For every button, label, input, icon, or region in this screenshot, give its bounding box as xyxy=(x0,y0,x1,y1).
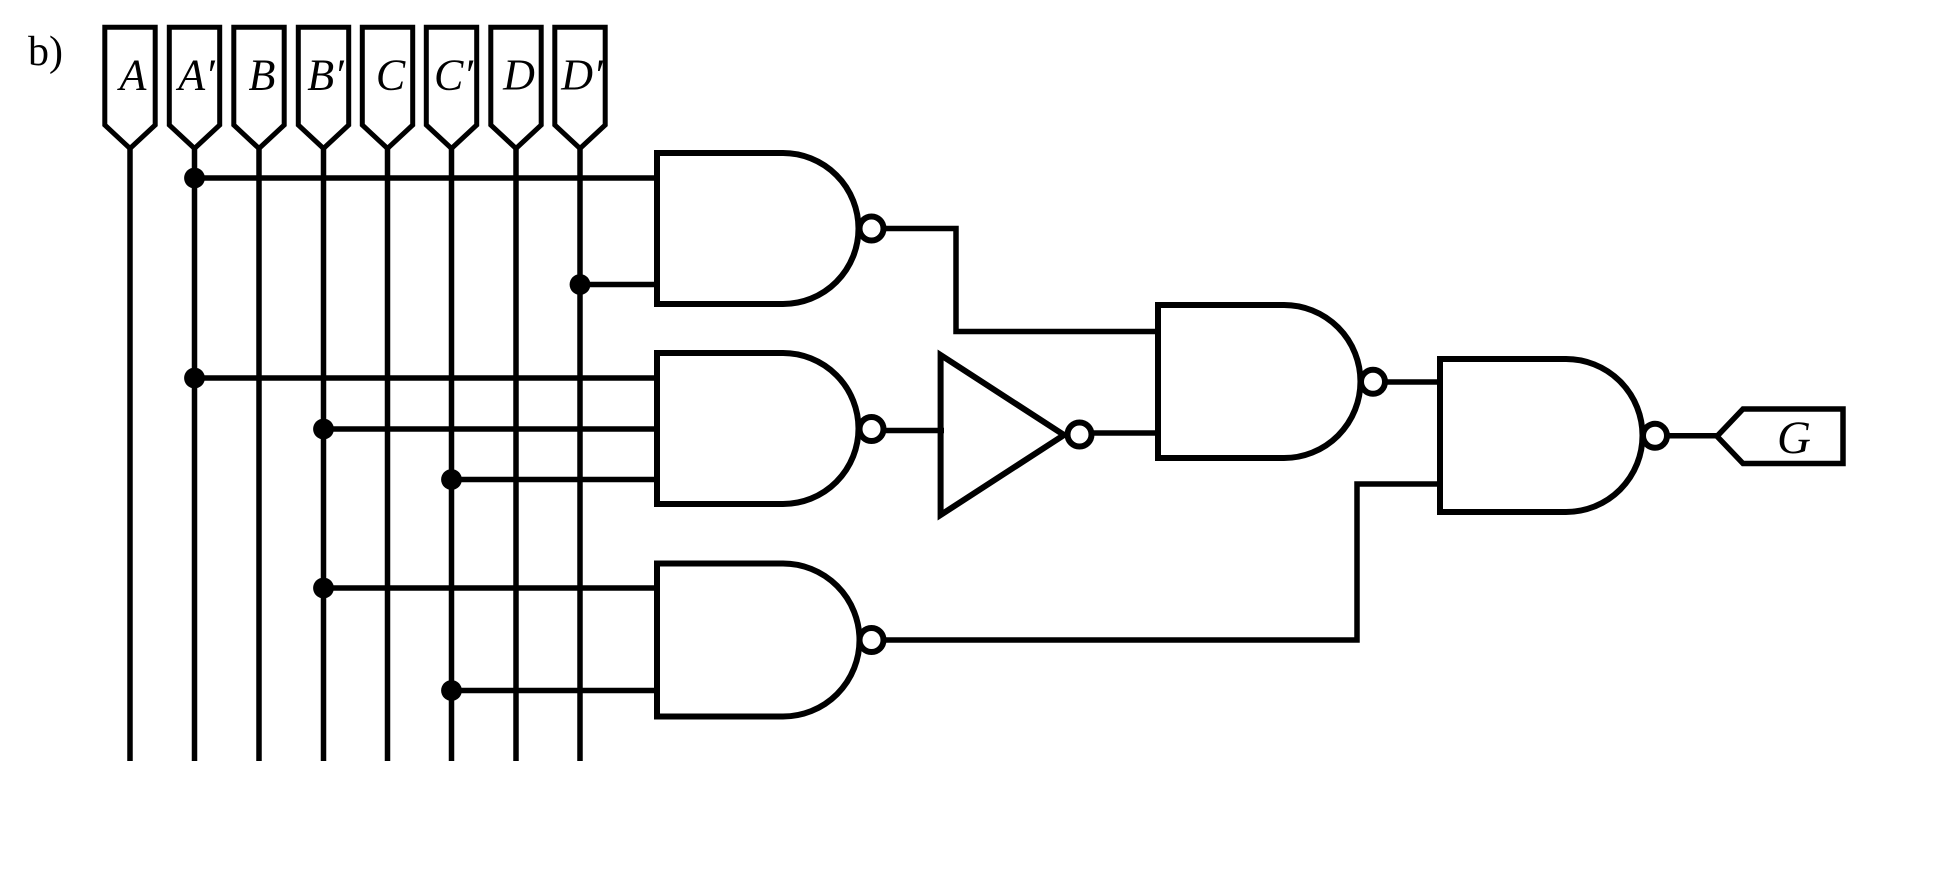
svg-text:A′: A′ xyxy=(175,51,216,100)
svg-text:B: B xyxy=(249,51,276,100)
svg-text:D′: D′ xyxy=(560,51,604,100)
svg-text:D: D xyxy=(502,51,535,100)
svg-text:C: C xyxy=(376,51,406,100)
svg-text:G: G xyxy=(1777,412,1811,464)
svg-text:b): b) xyxy=(28,29,63,75)
svg-text:A: A xyxy=(117,51,148,100)
svg-text:B′: B′ xyxy=(307,51,345,100)
svg-text:C′: C′ xyxy=(434,51,474,100)
